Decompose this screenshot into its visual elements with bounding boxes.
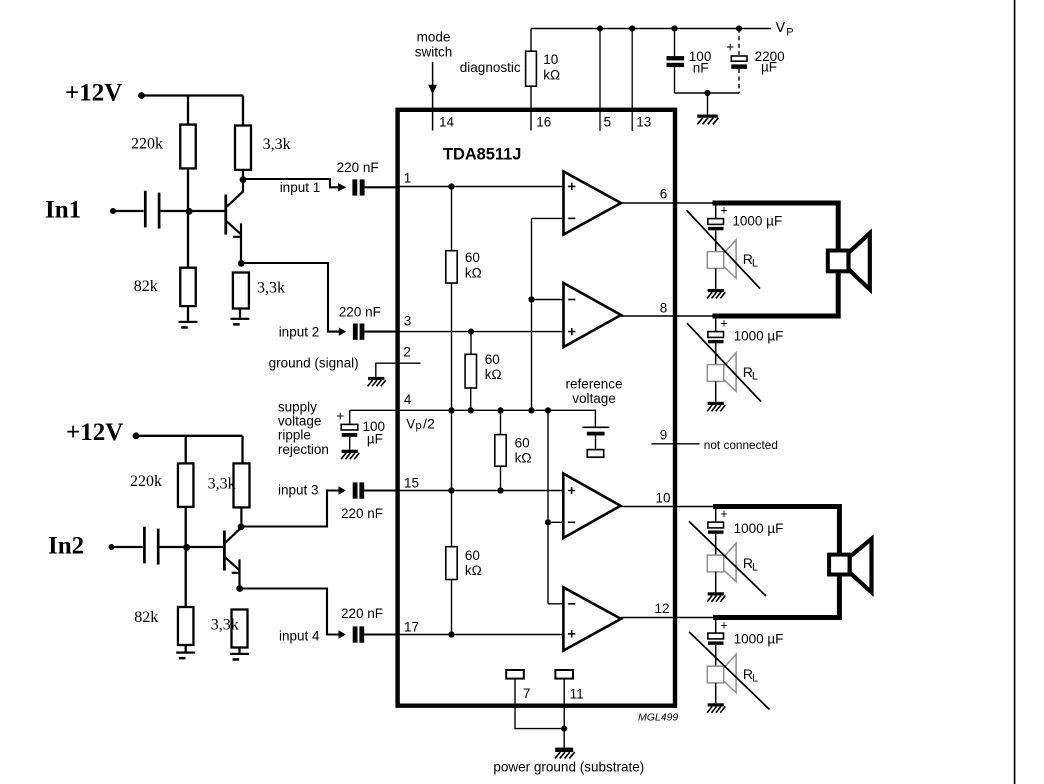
wire pins 7/11 to power ground — [515, 679, 564, 748]
wire In2 terminal to coupling cap — [112, 546, 143, 548]
wire 82k to ground (stage 1) — [187, 306, 189, 321]
svg-text:kΩ: kΩ — [465, 265, 482, 280]
page border (right edge) — [1014, 0, 1016, 784]
resistor 60k #4 — [446, 547, 457, 580]
transistor Q1 base bar — [224, 195, 227, 235]
A2 - sign — [568, 299, 575, 301]
ground signal — [368, 377, 386, 386]
loudspeaker channel 2 — [829, 539, 871, 593]
op-amp A2 — [564, 283, 622, 347]
svg-text:12: 12 — [655, 601, 670, 616]
svg-text:3,3k: 3,3k — [208, 476, 236, 493]
svg-text:rejection: rejection — [278, 442, 329, 457]
load RL (pin 10 leg) — [707, 543, 736, 582]
diagonal strike (pin 8 leg) — [687, 323, 761, 401]
resistor 60k #1 — [446, 251, 457, 283]
capacitor 1000uF (pin 8 leg) — [708, 316, 724, 365]
ground 82k (stage 2) — [176, 652, 195, 660]
wire signal ground stem — [375, 363, 377, 377]
svg-text:voltage: voltage — [572, 391, 616, 406]
svg-text:+: + — [720, 203, 727, 217]
svg-text:voltage: voltage — [278, 414, 322, 429]
wire 100nF top — [674, 29, 676, 57]
svg-text:9: 9 — [660, 428, 668, 443]
arrow signal flow (input 3) — [339, 486, 346, 494]
wire emitter node to input 4 cap — [240, 589, 339, 635]
node pin3/60k — [468, 329, 474, 335]
wire 100uF to ground — [349, 437, 351, 450]
wire rail down through 60k #3 to pin15 line — [500, 410, 502, 490]
resistor 60k #2 — [465, 354, 476, 388]
node base junction (stage 2) — [183, 544, 190, 551]
svg-text:+12V: +12V — [65, 80, 122, 107]
node base junction (stage 1) — [186, 208, 193, 215]
node VP rail / 2200uF — [736, 25, 742, 31]
svg-text:82k: 82k — [134, 609, 158, 626]
svg-text:3,3k: 3,3k — [257, 279, 285, 296]
svg-text:+: + — [720, 507, 727, 521]
transistor Q2 collector — [225, 507, 241, 543]
svg-text:60: 60 — [515, 436, 530, 451]
svg-text:82k: 82k — [134, 278, 158, 295]
node decoupling ground — [704, 90, 710, 96]
svg-text:15: 15 — [404, 475, 419, 490]
node collector (stage 1) — [240, 176, 247, 183]
A4 + sign — [568, 630, 575, 637]
svg-text:input 4: input 4 — [279, 628, 320, 643]
svg-text:1000 µF: 1000 µF — [734, 632, 784, 647]
ground power (substrate) — [555, 748, 575, 759]
svg-text:1000 µF: 1000 µF — [734, 521, 784, 536]
svg-text:13: 13 — [636, 115, 651, 130]
wire RL to ground (pin 12 leg) — [715, 683, 717, 703]
ground (pin 10 leg) — [707, 592, 725, 601]
op-amp A4 — [563, 587, 621, 650]
wire 2200uF top (dashed) — [738, 29, 740, 55]
wire pin 4 / Vp2 rail — [350, 410, 596, 427]
pin 11 tab — [555, 670, 573, 679]
wire 220k bottom to base node (stage 1) — [188, 168, 224, 267]
svg-text:kΩ: kΩ — [515, 451, 532, 466]
wire decoupling ground bus — [675, 92, 740, 94]
wire 2200uF bottom (dashed) — [738, 69, 740, 93]
wire 3,3k emitter to ground (stage 1) — [239, 309, 241, 318]
svg-text:220k: 220k — [131, 135, 163, 152]
wire bridge channel 2 (thick) — [713, 507, 839, 618]
loudspeaker channel 1 — [828, 233, 870, 289]
svg-text:V: V — [776, 20, 786, 36]
wire collector node to input 1 cap — [243, 179, 339, 187]
svg-text:10: 10 — [543, 52, 558, 67]
wire to supply ground — [707, 93, 709, 115]
svg-text:input 2: input 2 — [279, 324, 320, 339]
svg-text:+: + — [720, 618, 727, 632]
svg-text:+: + — [726, 39, 734, 54]
svg-text:ripple: ripple — [278, 428, 311, 443]
arrow signal flow (input 4) — [339, 630, 346, 638]
capacitor 1000uF (pin 12 leg) — [708, 618, 724, 667]
svg-text:not connected: not connected — [704, 438, 778, 452]
load RL (pin 8 leg) — [707, 353, 736, 392]
node emitter (stage 2) — [236, 585, 243, 592]
svg-text:mode: mode — [417, 30, 451, 45]
op-amp A1 — [564, 172, 622, 235]
svg-text:kΩ: kΩ — [543, 67, 560, 82]
svg-text:+: + — [336, 409, 344, 424]
wire pin 9 stub — [651, 443, 699, 445]
svg-text:µF: µF — [367, 431, 383, 446]
arrow signal flow (input 1) — [338, 183, 346, 191]
A2 + sign — [568, 328, 575, 335]
rail junction nodes — [448, 407, 454, 413]
svg-text:1: 1 — [404, 171, 412, 186]
svg-text:220k: 220k — [130, 473, 162, 490]
resistor 3,3k collector (stage 2) — [234, 463, 250, 507]
svg-text:In1: In1 — [45, 197, 81, 224]
wire collector node to input 3 cap — [241, 491, 339, 527]
capacitor 1000uF (pin 6 leg) — [708, 203, 724, 252]
load RL (pin 6 leg) — [707, 240, 736, 279]
svg-text:3,3k: 3,3k — [211, 616, 239, 633]
svg-text:input 3: input 3 — [278, 483, 319, 498]
svg-text:MGL499: MGL499 — [638, 712, 678, 724]
wire pin 10 output — [621, 506, 715, 508]
diagonal strike (pin 10 leg) — [689, 521, 766, 596]
svg-text:power ground (substrate): power ground (substrate) — [493, 760, 644, 775]
svg-text:60: 60 — [465, 250, 480, 265]
svg-text:L: L — [752, 672, 758, 684]
svg-text:4: 4 — [404, 392, 412, 407]
svg-text:14: 14 — [439, 115, 455, 130]
wire RL to ground (pin 10 leg) — [715, 572, 717, 592]
svg-text:11: 11 — [570, 687, 584, 702]
svg-text:input 1: input 1 — [280, 180, 321, 195]
svg-text:10: 10 — [656, 490, 671, 505]
diagonal strike (pin 12 leg) — [689, 632, 770, 710]
ground 100uF — [341, 450, 359, 459]
wire pin 17 to op-amp A4 + — [399, 634, 563, 636]
arrow signal flow (input 2) — [339, 328, 346, 336]
resistor 10 kOhm (diagnostic, pin 16) — [526, 51, 537, 86]
wire mode switch to pin 14 — [432, 62, 434, 131]
wire In1 terminal to coupling cap — [113, 210, 144, 212]
node pin15/60k3 — [497, 487, 503, 493]
wire coupling cap to base junction (stage 2) — [160, 546, 187, 548]
node pin1/60k — [448, 183, 454, 189]
wire coupling cap to base junction (stage 1) — [160, 210, 189, 212]
svg-text:3,3k: 3,3k — [263, 136, 291, 153]
svg-text:TDA8511J: TDA8511J — [443, 146, 521, 164]
reference voltage source symbol — [582, 427, 609, 457]
node In1 input terminal — [110, 208, 116, 214]
wire line C (A3/A4 inverting join) — [548, 410, 563, 604]
svg-text:8: 8 — [660, 300, 668, 315]
svg-text:220 nF: 220 nF — [341, 606, 383, 621]
svg-text:1000 µF: 1000 µF — [732, 214, 782, 229]
wire pin 12 output — [621, 617, 714, 619]
ground supply decoupling — [697, 115, 718, 125]
node collector (stage 2) — [238, 524, 245, 531]
node VP rail / 100nF — [671, 25, 677, 31]
svg-text:60: 60 — [485, 352, 500, 367]
capacitor 100 nF — [667, 56, 685, 60]
node +12V terminal stage 2 — [133, 432, 140, 439]
capacitor 100 uF (ripple rejection) — [341, 424, 358, 430]
wire 100uF stem — [349, 410, 351, 424]
op-amp A3 — [563, 474, 620, 539]
svg-text:220 nF: 220 nF — [339, 305, 381, 320]
wire pin 8 output — [621, 315, 714, 317]
transistor Q1 emitter with arrow — [227, 221, 241, 263]
A3 + sign — [568, 487, 575, 494]
capacitor 220 nF C4 (input 4) — [353, 626, 358, 642]
wire +12V rail stage 2 — [136, 436, 243, 464]
svg-text:In2: In2 — [48, 533, 84, 560]
wire pin 2 stub (signal ground) — [375, 362, 420, 364]
ground 3,3k emitter (stage 2) — [230, 653, 249, 661]
resistor 220k (stage 2) — [178, 463, 194, 507]
wire pin 13 to VP rail — [631, 29, 633, 132]
svg-text:/2: /2 — [423, 417, 435, 433]
svg-text:L: L — [752, 257, 758, 269]
node A3 inverting — [545, 519, 551, 525]
wire cap to pin 3 — [364, 331, 396, 333]
wire VP supply rail — [531, 28, 771, 30]
node VP rail / pin 5 — [597, 25, 603, 31]
wire pin 5 to VP rail — [599, 29, 601, 132]
svg-text:switch: switch — [415, 44, 453, 59]
node pin15/lineA — [448, 487, 454, 493]
node +12V terminal stage 1 — [138, 92, 145, 99]
transistor Q2 base bar — [223, 531, 226, 571]
node power ground join — [561, 726, 567, 732]
ground (pin 6 leg) — [707, 289, 725, 298]
wire 100nF bottom — [674, 67, 676, 93]
IC U1 TDA8511J package outline — [398, 110, 675, 706]
svg-text:L: L — [752, 561, 758, 573]
capacitor 2200 uF (electrolytic) — [731, 56, 747, 61]
wire pin 6 output — [621, 202, 714, 204]
capacitor 220 nF C2 (input 2) — [353, 324, 358, 340]
svg-text:diagnostic: diagnostic — [460, 60, 521, 75]
wire emitter node to input 2 cap — [241, 263, 339, 332]
svg-text:V: V — [406, 417, 415, 432]
svg-text:2: 2 — [403, 344, 411, 359]
resistor 3,3k collector (stage 1) — [235, 126, 251, 170]
A1 + sign — [568, 183, 575, 190]
arrow mode switch (down) — [428, 85, 437, 95]
capacitor 220 nF C1 (input 1) — [352, 179, 357, 195]
wire cap to pin 15 — [364, 489, 396, 491]
svg-text:µF: µF — [761, 60, 777, 75]
svg-text:supply: supply — [278, 399, 317, 414]
wire line B (A1/A2 inverting join) — [532, 218, 564, 410]
capacitor input coupling (In2) — [144, 527, 158, 565]
svg-text:P: P — [786, 26, 793, 38]
wire +12V rail stage 1 — [142, 96, 244, 126]
ground (pin 12 leg) — [707, 703, 725, 712]
svg-text:220 nF: 220 nF — [341, 506, 383, 521]
transistor Q1 collector — [227, 170, 243, 207]
wire 220k bottom to base node (stage 2) — [186, 507, 223, 607]
wire pin 15 to op-amp A3 + — [399, 490, 563, 492]
wire RL to ground (pin 6 leg) — [715, 268, 717, 289]
load RL (pin 12 leg) — [707, 654, 736, 693]
A3 - sign — [568, 521, 575, 523]
wire VP rail to 10k resistor — [530, 29, 532, 131]
node emitter (stage 1) — [238, 260, 245, 267]
pin 7 tab — [506, 670, 524, 679]
ground 3,3k emitter (stage 1) — [230, 318, 249, 326]
svg-text:1000 µF: 1000 µF — [734, 328, 784, 343]
svg-text:7: 7 — [523, 686, 531, 701]
node In2 input terminal — [109, 544, 115, 550]
svg-text:kΩ: kΩ — [465, 563, 482, 578]
svg-text:+: + — [720, 317, 727, 331]
svg-text:6: 6 — [660, 186, 668, 201]
resistor 82k (stage 2) — [178, 607, 194, 645]
svg-text:L: L — [752, 370, 758, 382]
svg-text:16: 16 — [536, 115, 551, 130]
svg-text:p: p — [416, 420, 422, 432]
ground (pin 8 leg) — [707, 402, 725, 411]
svg-text:nF: nF — [693, 60, 709, 75]
wire RL to ground (pin 8 leg) — [715, 381, 717, 401]
svg-text:220 nF: 220 nF — [337, 160, 379, 175]
svg-text:3: 3 — [404, 313, 412, 328]
wire bridge channel 1 (thick) — [713, 203, 839, 316]
transistor Q2 emitter with arrow — [225, 557, 239, 588]
node A2 inverting — [528, 296, 534, 302]
wire 3,3k emitter to ground (stage 2) — [238, 648, 240, 653]
node pin17/lineA — [448, 631, 454, 637]
resistor 3,3k emitter (stage 2) — [232, 610, 248, 648]
node VP rail / pin 13 — [629, 25, 635, 31]
wire internal line A (pin1-rail-pin15-pin17) — [451, 187, 453, 635]
svg-text:17: 17 — [404, 619, 419, 634]
resistor 220k (stage 1) — [180, 125, 196, 169]
wire cap to pin 17 — [364, 633, 396, 635]
resistor 82k (stage 1) — [180, 268, 196, 306]
resistor 3,3k emitter (stage 1) — [233, 273, 249, 309]
wire cap to pin 1 — [365, 186, 396, 188]
capacitor 220 nF C3 (input 3) — [353, 482, 358, 498]
ground 82k (stage 1) — [179, 321, 198, 329]
diagonal strike (pin 6 leg) — [687, 210, 761, 288]
svg-text:kΩ: kΩ — [485, 367, 502, 382]
svg-text:60: 60 — [465, 548, 480, 563]
A1 - sign — [568, 217, 575, 219]
wire 82k to ground (stage 2) — [185, 645, 187, 652]
capacitor 1000uF (pin 10 leg) — [708, 507, 724, 556]
wire pin3 node down through 60k #2 — [470, 332, 472, 411]
svg-text:reference: reference — [565, 377, 622, 392]
svg-text:+12V: +12V — [66, 419, 123, 446]
capacitor input coupling (In1) — [145, 191, 159, 229]
wire pin 1 to op-amp A1 + — [399, 186, 564, 188]
wire pin 3 to op-amp A2 + — [399, 331, 564, 333]
svg-text:5: 5 — [604, 115, 612, 130]
resistor 60k #3 — [495, 435, 506, 467]
svg-text:ground (signal): ground (signal) — [269, 355, 359, 370]
A4 - sign — [568, 603, 575, 605]
